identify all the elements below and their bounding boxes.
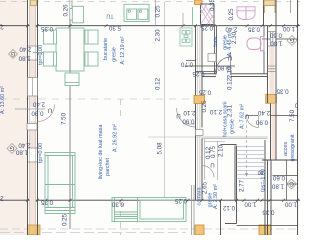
svg-text:acces: acces bbox=[283, 142, 289, 156]
svg-text:7.50: 7.50 bbox=[289, 109, 296, 122]
svg-text:U: U bbox=[48, 107, 52, 114]
svg-text:2.40: 2.40 bbox=[18, 142, 31, 149]
svg-text:bucatarie: bucatarie bbox=[103, 38, 109, 60]
svg-text:2.77: 2.77 bbox=[239, 179, 246, 192]
svg-text:gresie: gresie bbox=[229, 119, 235, 134]
svg-text:0.12: 0.12 bbox=[227, 77, 234, 90]
svg-text:1.80: 1.80 bbox=[270, 40, 283, 47]
svg-text:A: 4.45 m²: A: 4.45 m² bbox=[227, 31, 233, 56]
svg-text:baie: baie bbox=[213, 36, 219, 46]
svg-text:hol+casa scarii: hol+casa scarii bbox=[223, 102, 229, 138]
svg-text:parchet: parchet bbox=[105, 158, 111, 176]
svg-text:1.00: 1.00 bbox=[284, 201, 297, 208]
svg-text:living+loc de luat masa: living+loc de luat masa bbox=[98, 125, 104, 180]
svg-text:1.00: 1.00 bbox=[282, 25, 295, 32]
svg-text:2: 2 bbox=[0, 23, 4, 30]
svg-text:5.30: 5.30 bbox=[108, 24, 121, 31]
svg-text:tpr=0.00: tpr=0.00 bbox=[38, 143, 44, 163]
svg-text:A: 7.62 m²: A: 7.62 m² bbox=[240, 104, 246, 129]
svg-text:0.25: 0.25 bbox=[200, 24, 213, 31]
svg-text:2.40: 2.40 bbox=[19, 46, 32, 53]
svg-text:2.40: 2.40 bbox=[32, 101, 45, 108]
svg-text:1.80: 1.80 bbox=[18, 55, 31, 62]
svg-text:2.10: 2.10 bbox=[218, 144, 225, 157]
svg-text:0.35: 0.35 bbox=[40, 199, 53, 206]
svg-text:0.90: 0.90 bbox=[31, 110, 44, 117]
svg-text:U: U bbox=[210, 161, 214, 168]
svg-text:2.10: 2.10 bbox=[209, 108, 222, 115]
svg-text:A: 26.92 m²: A: 26.92 m² bbox=[113, 124, 119, 152]
svg-text:gresogranit: gresogranit bbox=[290, 134, 296, 161]
svg-text:2.30: 2.30 bbox=[155, 29, 162, 42]
svg-text:5.08: 5.08 bbox=[157, 142, 164, 155]
svg-text:0.35: 0.35 bbox=[40, 25, 53, 32]
svg-text:U: U bbox=[176, 112, 180, 119]
svg-text:1.80: 1.80 bbox=[15, 149, 28, 156]
svg-text:0.25: 0.25 bbox=[62, 213, 69, 226]
svg-text:G: G bbox=[289, 37, 294, 43]
svg-text:2.10: 2.10 bbox=[227, 66, 234, 79]
svg-text:0.70: 0.70 bbox=[180, 61, 193, 68]
svg-text:0.35: 0.35 bbox=[276, 88, 289, 95]
svg-text:0.35: 0.35 bbox=[209, 0, 216, 11]
svg-text:0.26: 0.26 bbox=[63, 4, 70, 17]
svg-text:0.25: 0.25 bbox=[155, 5, 162, 18]
svg-text:0.75: 0.75 bbox=[210, 145, 217, 158]
svg-text:7.50: 7.50 bbox=[61, 112, 68, 125]
svg-text:A: 12.19 m²: A: 12.19 m² bbox=[120, 36, 126, 64]
svg-text:6.30: 6.30 bbox=[111, 201, 124, 208]
svg-text:0.60: 0.60 bbox=[269, 32, 282, 39]
svg-text:0.25: 0.25 bbox=[228, 8, 235, 21]
svg-text:gresie: gresie bbox=[112, 47, 118, 62]
svg-text:0.25: 0.25 bbox=[192, 70, 205, 77]
svg-text:A: 13.60 m²: A: 13.60 m² bbox=[0, 86, 6, 114]
svg-text:tpr=0.00: tpr=0.00 bbox=[38, 45, 44, 65]
svg-text:G: G bbox=[289, 180, 294, 186]
svg-text:camara: camara bbox=[197, 188, 203, 206]
svg-text:0.25: 0.25 bbox=[198, 89, 211, 96]
svg-text:0: 0 bbox=[294, 102, 298, 109]
svg-text:0.12: 0.12 bbox=[222, 204, 235, 211]
svg-text:1.00: 1.00 bbox=[244, 201, 257, 208]
svg-text:0.35: 0.35 bbox=[247, 26, 260, 33]
svg-text:2.10: 2.10 bbox=[183, 109, 196, 116]
svg-text:0.90: 0.90 bbox=[182, 118, 195, 125]
svg-text:TU: TU bbox=[106, 13, 113, 19]
svg-text:0.35: 0.35 bbox=[262, 209, 275, 216]
svg-text:2.40: 2.40 bbox=[257, 109, 270, 116]
svg-text:0.25: 0.25 bbox=[201, 100, 208, 113]
svg-text:0.12: 0.12 bbox=[155, 77, 162, 90]
svg-text:0.60: 0.60 bbox=[272, 174, 285, 181]
svg-text:tps=-1.80: tps=-1.80 bbox=[261, 169, 267, 192]
svg-text:2.40: 2.40 bbox=[225, 26, 238, 33]
svg-text:1.80: 1.80 bbox=[271, 183, 284, 190]
svg-text:G: G bbox=[10, 50, 15, 56]
svg-text:2: 2 bbox=[0, 195, 4, 202]
svg-text:0.90: 0.90 bbox=[255, 119, 268, 126]
svg-text:G: G bbox=[9, 145, 14, 151]
svg-text:0.25: 0.25 bbox=[174, 197, 187, 204]
svg-text:A: 2.50 m²: A: 2.50 m² bbox=[213, 184, 219, 209]
